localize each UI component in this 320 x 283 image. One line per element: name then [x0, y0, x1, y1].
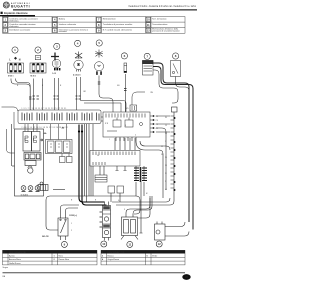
svg-text:2: 2: [71, 230, 72, 232]
svg-text:4°F: 4°F: [156, 128, 159, 130]
svg-text:10: 10: [102, 242, 106, 246]
svg-text:Elettroiniettore: Elettroiniettore: [103, 17, 117, 20]
svg-text:Verde: Verde: [152, 255, 158, 257]
svg-text:Rosso-Nero: Rosso-Nero: [59, 259, 71, 261]
svg-text:30: 30: [165, 117, 167, 119]
svg-text:50: 50: [165, 133, 167, 135]
svg-text:12: 12: [158, 242, 162, 246]
svg-text:Bobina: Bobina: [59, 18, 66, 20]
svg-text:19: 19: [165, 157, 167, 159]
svg-text:Avorio: Avorio: [9, 254, 16, 257]
svg-text:3°F: 3°F: [156, 116, 159, 118]
svg-text:Azzurro-Nero: Azzurro-Nero: [9, 258, 22, 261]
svg-text:44: 44: [165, 189, 167, 191]
svg-text:Grigio-Rosso: Grigio-Rosso: [108, 259, 121, 261]
svg-text:Termointerruttore: Termointerruttore: [152, 23, 168, 26]
svg-text:M 30 1: M 30 1: [31, 76, 37, 78]
svg-text:NO-CE: NO-CE: [42, 236, 49, 238]
svg-text:7: 7: [165, 141, 166, 143]
svg-text:elettronica: elettronica: [9, 25, 19, 28]
svg-text:DENOMINAZ. COL: DENOMINAZ. COL: [108, 251, 126, 254]
svg-text:pressione di sovralimentazione: pressione di sovralimentazione: [152, 29, 180, 32]
svg-text:11: 11: [165, 173, 167, 175]
svg-text:Impianto iniezione: Impianto iniezione: [4, 11, 28, 15]
svg-text:N.7 candele riscald. sbrinamen: N.7 candele riscald. sbrinamento: [103, 28, 133, 31]
svg-text:Segue: Segue: [3, 267, 8, 269]
svg-text:15: 15: [165, 125, 167, 127]
svg-text:1 4 2: 1 4 2: [52, 72, 56, 75]
svg-text:2°F: 2°F: [156, 120, 159, 122]
svg-text:1°F: 1°F: [156, 124, 159, 126]
svg-text:11: 11: [128, 243, 131, 247]
svg-text:Trasduttore di pressione assol: Trasduttore di pressione assoluta: [103, 23, 133, 26]
svg-text:12: 12: [161, 146, 163, 148]
svg-text:8: 8: [125, 125, 126, 127]
svg-text:5: 5: [165, 181, 166, 183]
svg-text:30 30A 30: 30 30A 30: [21, 193, 29, 196]
svg-text:31: 31: [161, 154, 163, 156]
svg-text:Bianco: Bianco: [108, 255, 115, 257]
svg-text:1: 1: [71, 223, 72, 225]
svg-text:1: 1: [109, 139, 110, 141]
svg-text:23: 23: [165, 165, 167, 167]
svg-text:N.O. termostato: N.O. termostato: [152, 17, 167, 20]
svg-text:Giallo-Rosso: Giallo-Rosso: [9, 263, 21, 265]
svg-text:elettronica: elettronica: [9, 19, 19, 22]
svg-text:Distributore accensione: Distributore accensione: [9, 28, 31, 31]
svg-text:4 cilindri: 4 cilindri: [73, 73, 81, 76]
svg-text:BUGATTI: BUGATTI: [11, 5, 30, 9]
svg-text:Iniettore carburante: Iniettore carburante: [59, 23, 77, 26]
svg-text:1 3 5 7 9 11 13 15 17 19 21 23: 1 3 5 7 9 11 13 15 17 19 21 23 25 27 29 …: [22, 108, 67, 110]
svg-text:M 30 1: M 30 1: [8, 76, 14, 78]
svg-text:COM (+): COM (+): [69, 215, 77, 217]
svg-text:massimo: massimo: [59, 31, 68, 33]
svg-text:N: N: [19, 58, 21, 61]
svg-text:DENOMINAZIONE: DENOMINAZIONE: [9, 251, 27, 254]
svg-text:Federica 2.0 turbo - Federic: Federica 2.0 turbo - Federica 2.0 turbo …: [129, 5, 197, 8]
